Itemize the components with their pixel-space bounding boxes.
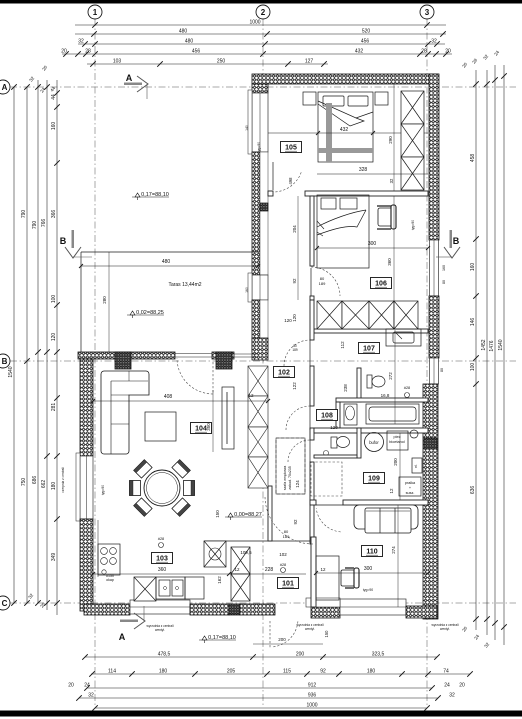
svg-text:32: 32: [389, 178, 394, 183]
svg-text:520: 520: [362, 28, 371, 34]
svg-text:pralka: pralka: [405, 481, 416, 485]
svg-text:140: 140: [245, 125, 249, 131]
svg-text:274: 274: [391, 546, 396, 554]
svg-text:okap: okap: [106, 578, 114, 582]
svg-text:180: 180: [51, 482, 57, 491]
svg-text:0,17=88,10: 0,17=88,10: [208, 635, 236, 641]
svg-text:122: 122: [292, 382, 297, 390]
svg-text:12: 12: [248, 393, 254, 398]
svg-text:204: 204: [292, 225, 297, 233]
svg-text:24: 24: [84, 682, 90, 688]
svg-text:100: 100: [470, 363, 476, 372]
svg-text:wentyl.: wentyl.: [440, 627, 450, 631]
svg-text:92: 92: [292, 278, 297, 284]
svg-text:C: C: [2, 599, 8, 608]
svg-text:92: 92: [320, 668, 326, 674]
svg-text:32: 32: [449, 692, 455, 698]
svg-text:1: 1: [93, 8, 98, 17]
svg-text:238: 238: [343, 384, 348, 392]
svg-text:328: 328: [359, 167, 368, 173]
svg-text:28: 28: [85, 48, 91, 54]
svg-text:0,17=88,10: 0,17=88,10: [141, 192, 169, 198]
svg-text:200: 200: [393, 458, 398, 466]
svg-text:#28: #28: [280, 563, 286, 567]
svg-text:B: B: [60, 236, 67, 246]
svg-text:766: 766: [41, 219, 47, 228]
svg-text:szafa wnękowa: szafa wnękowa: [283, 466, 287, 491]
svg-text:tyg=90: tyg=90: [411, 220, 415, 230]
svg-text:20: 20: [61, 48, 67, 54]
svg-text:80: 80: [440, 368, 444, 372]
svg-text:114: 114: [108, 668, 116, 674]
svg-text:24: 24: [444, 682, 450, 688]
svg-text:480: 480: [162, 259, 171, 265]
svg-text:3: 3: [425, 8, 430, 17]
svg-text:300: 300: [364, 566, 373, 572]
svg-text:160: 160: [470, 263, 476, 272]
svg-text:150: 150: [215, 510, 220, 518]
svg-text:281: 281: [51, 403, 57, 412]
svg-text:478,5: 478,5: [158, 651, 171, 657]
svg-text:20: 20: [459, 682, 465, 688]
svg-text:790: 790: [32, 221, 38, 230]
svg-text:180: 180: [367, 668, 376, 674]
svg-text:102: 102: [278, 370, 290, 377]
svg-text:189: 189: [283, 534, 290, 539]
svg-text:20: 20: [445, 48, 451, 54]
svg-text:#28: #28: [158, 537, 164, 541]
svg-text:350: 350: [206, 423, 211, 431]
svg-text:tyg=90: tyg=90: [257, 142, 261, 152]
svg-text:120: 120: [51, 333, 57, 342]
svg-text:32: 32: [431, 38, 437, 44]
svg-text:480: 480: [185, 38, 194, 44]
svg-text:408: 408: [164, 394, 173, 400]
svg-text:360: 360: [158, 567, 167, 573]
svg-text:B: B: [453, 236, 460, 246]
svg-text:160: 160: [245, 287, 249, 293]
svg-text:480: 480: [179, 28, 188, 34]
svg-text:20: 20: [68, 682, 74, 688]
svg-text:tyg=90: tyg=90: [363, 588, 373, 592]
svg-text:150: 150: [324, 630, 329, 638]
svg-text:189: 189: [292, 348, 298, 352]
svg-text:44: 44: [51, 94, 57, 100]
svg-text:109,5: 109,5: [240, 550, 252, 555]
svg-text:32: 32: [78, 38, 84, 44]
svg-text:124: 124: [295, 480, 300, 488]
svg-text:458: 458: [470, 154, 476, 163]
svg-text:120: 120: [292, 314, 297, 322]
svg-text:zabud. 70x235: zabud. 70x235: [288, 466, 292, 490]
svg-text:106: 106: [375, 281, 387, 288]
svg-text:200: 200: [278, 637, 286, 642]
svg-text:tyg=90: tyg=90: [101, 485, 105, 495]
svg-text:120: 120: [284, 318, 292, 323]
svg-text:686: 686: [32, 476, 38, 485]
svg-text:498: 498: [288, 177, 293, 185]
svg-text:290: 290: [388, 136, 393, 144]
svg-text:1000: 1000: [249, 19, 260, 25]
svg-text:108: 108: [321, 413, 333, 420]
svg-text:456: 456: [192, 48, 201, 54]
svg-text:936: 936: [308, 692, 317, 698]
svg-text:109: 109: [368, 476, 380, 483]
svg-text:912: 912: [308, 682, 317, 688]
svg-text:1476: 1476: [489, 340, 495, 351]
svg-text:323,5: 323,5: [372, 651, 385, 657]
svg-text:czerpnia z centrali: czerpnia z centrali: [61, 467, 65, 493]
svg-text:74: 74: [443, 668, 449, 674]
svg-text:105: 105: [285, 145, 297, 152]
svg-text:12: 12: [320, 567, 326, 572]
svg-text:180: 180: [159, 668, 168, 674]
svg-text:92: 92: [293, 519, 298, 525]
svg-text:100: 100: [51, 295, 57, 304]
svg-text:120: 120: [330, 425, 338, 430]
svg-text:360: 360: [387, 258, 392, 266]
svg-text:0,00=88,27: 0,00=88,27: [234, 512, 262, 518]
svg-text:162: 162: [217, 576, 222, 584]
svg-text:250: 250: [217, 58, 226, 64]
svg-text:115: 115: [283, 668, 291, 674]
svg-text:456: 456: [361, 38, 370, 44]
svg-text:el.: el.: [414, 464, 418, 468]
svg-text:12: 12: [234, 567, 240, 572]
svg-text:101: 101: [282, 581, 294, 588]
svg-text:102: 102: [279, 552, 287, 557]
svg-text:228: 228: [265, 567, 274, 573]
svg-text:2: 2: [261, 8, 266, 17]
svg-text:1000: 1000: [306, 702, 317, 708]
svg-text:Taras 13,44m2: Taras 13,44m2: [168, 282, 201, 288]
svg-text:bioetanol: bioetanol: [389, 440, 405, 444]
svg-text:107: 107: [363, 346, 375, 353]
svg-text:112: 112: [340, 341, 345, 349]
svg-text:160: 160: [51, 122, 57, 131]
svg-text:349: 349: [51, 553, 57, 562]
svg-text:#28: #28: [404, 386, 410, 390]
svg-text:160: 160: [442, 265, 446, 271]
svg-text:790: 790: [21, 210, 27, 219]
svg-text:32: 32: [88, 692, 94, 698]
svg-text:bufor: bufor: [369, 440, 379, 445]
svg-text:127: 127: [305, 58, 314, 64]
svg-text:272: 272: [388, 372, 393, 380]
svg-text:susz.: susz.: [406, 491, 415, 495]
svg-text:205: 205: [227, 668, 236, 674]
svg-text:750: 750: [21, 478, 27, 487]
svg-text:432: 432: [340, 127, 349, 133]
svg-text:103: 103: [156, 556, 168, 563]
svg-text:B: B: [2, 357, 8, 366]
svg-text:1540: 1540: [498, 339, 504, 350]
svg-text:1540: 1540: [8, 366, 14, 377]
svg-text:A: A: [126, 73, 133, 83]
svg-text:366: 366: [51, 210, 57, 219]
svg-text:0,02=88,25: 0,02=88,25: [136, 310, 164, 316]
svg-text:16,8: 16,8: [381, 393, 390, 398]
svg-text:432: 432: [355, 48, 364, 54]
svg-text:300: 300: [368, 241, 377, 247]
svg-text:piec: piec: [394, 435, 401, 439]
svg-text:280: 280: [102, 296, 107, 304]
svg-text:110: 110: [366, 549, 377, 556]
svg-text:28: 28: [421, 48, 427, 54]
svg-text:A: A: [119, 632, 126, 642]
svg-text:1452: 1452: [481, 339, 487, 350]
svg-text:146: 146: [470, 318, 476, 327]
svg-text:80: 80: [442, 280, 446, 284]
svg-text:662: 662: [41, 480, 47, 489]
svg-text:200: 200: [296, 651, 305, 657]
svg-text:12: 12: [389, 488, 394, 494]
svg-text:A: A: [2, 83, 8, 92]
svg-text:wentyl.: wentyl.: [305, 627, 315, 631]
svg-text:189: 189: [319, 281, 326, 286]
svg-text:103: 103: [113, 58, 122, 64]
svg-text:636: 636: [470, 486, 476, 495]
svg-text:wentyl.: wentyl.: [155, 628, 165, 632]
